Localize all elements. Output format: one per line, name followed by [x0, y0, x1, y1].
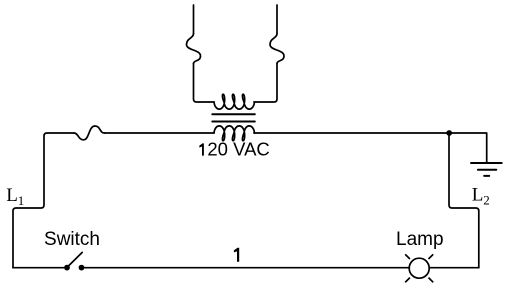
junction node dot — [446, 130, 452, 136]
transformer T1 core — [212, 114, 255, 121]
wire primary right lead — [254, 64, 277, 103]
break squiggle on L1 wire — [74, 126, 105, 140]
source break squiggle right — [270, 34, 284, 64]
transformer T1 primary winding — [214, 94, 255, 109]
wire switch to lamp — [81, 267, 409, 269]
wire secondary right lead — [254, 132, 449, 134]
wire L2 branch — [449, 133, 479, 268]
svg-text:L2: L2 — [472, 185, 490, 208]
ground symbol — [471, 163, 502, 176]
wire left horizontal to corner — [13, 133, 74, 268]
label 120 VAC — [199, 143, 204, 155]
wire bottom left to switch — [13, 267, 67, 269]
svg-text:Lamp: Lamp — [396, 229, 444, 250]
wire top-right lead-in — [276, 5, 278, 34]
lamp rays — [405, 254, 433, 282]
wire primary left lead — [194, 64, 215, 103]
transformer T1 secondary winding — [214, 126, 255, 141]
svg-text:Switch: Switch — [44, 229, 100, 250]
lamp bulb circle — [409, 258, 429, 278]
source break squiggle left — [187, 34, 201, 64]
wire secondary left lead — [105, 132, 215, 134]
svg-text:L1: L1 — [6, 185, 24, 208]
wire top-left lead-in — [193, 5, 195, 34]
svg-text:20 VAC: 20 VAC — [207, 138, 269, 159]
wire number 1 — [234, 248, 239, 262]
switch terminal dots — [64, 265, 70, 271]
wire lamp to right corner — [429, 267, 479, 269]
wire to ground — [449, 133, 487, 163]
switch blade — [67, 252, 82, 267]
